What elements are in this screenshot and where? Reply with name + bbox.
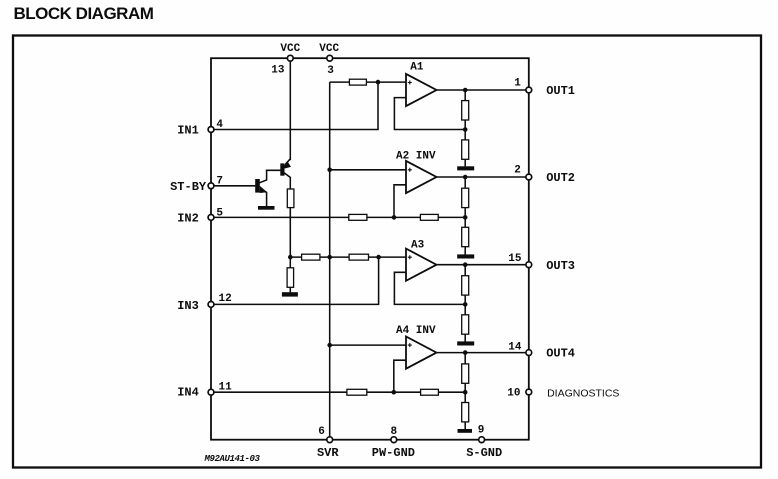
pin 5 IN2 bbox=[208, 215, 214, 221]
svg-text:6: 6 bbox=[318, 426, 325, 438]
transistor Q1 (standby NPN) bbox=[255, 179, 267, 193]
svg-text:VCC: VCC bbox=[280, 43, 300, 55]
resistor A3 divider lower bbox=[462, 315, 469, 334]
ground Q1 emitter bbox=[258, 206, 275, 210]
svg-text:12: 12 bbox=[219, 293, 232, 305]
junction node OUT3 bbox=[463, 262, 468, 267]
wire IN3 row bbox=[211, 257, 379, 304]
resistor A1 input bbox=[349, 79, 366, 85]
ground A2 divider bbox=[457, 254, 474, 258]
resistor A2 divider upper bbox=[462, 188, 469, 207]
pin 14 OUT4 bbox=[526, 350, 532, 356]
resistor A4 divider lower bbox=[462, 403, 469, 422]
svg-text:IN4: IN4 bbox=[177, 386, 199, 400]
svg-text:13: 13 bbox=[271, 65, 285, 77]
svg-text:IN3: IN3 bbox=[177, 299, 199, 313]
pin 6 SVR bbox=[327, 437, 333, 443]
svg-text:SVR: SVR bbox=[317, 446, 339, 460]
resistor bias to ground bbox=[287, 268, 294, 288]
junction node bias corner bbox=[288, 255, 293, 260]
wire A2 output divider bbox=[464, 177, 466, 188]
junction node A2 plus input on SVR rail bbox=[327, 168, 332, 173]
pin 11 IN4 bbox=[208, 389, 214, 395]
svg-text:OUT4: OUT4 bbox=[546, 347, 575, 361]
resistor A3 bias right bbox=[349, 254, 368, 260]
wire VCC pin13 rail down to Q2 emitter bbox=[289, 61, 291, 161]
wire bias node down to ground resistor bbox=[289, 257, 291, 268]
svg-text:1: 1 bbox=[514, 78, 521, 90]
wire ST-BY base bbox=[211, 185, 255, 187]
junction node A4 inverting input bbox=[392, 390, 397, 395]
junction node OUT1 bbox=[463, 88, 468, 93]
svg-text:3: 3 bbox=[327, 65, 334, 77]
wire SVR vertical rail bbox=[329, 82, 331, 438]
junction node A4 feedback tap bbox=[463, 390, 468, 395]
svg-text:OUT1: OUT1 bbox=[546, 84, 575, 98]
wire OUT4 bbox=[437, 352, 529, 354]
pin 7 ST-BY bbox=[208, 183, 214, 189]
svg-text:BLOCK DIAGRAM: BLOCK DIAGRAM bbox=[14, 4, 154, 23]
wire Q2 emitter from VCC rail bbox=[286, 159, 291, 164]
junction node OUT2 bbox=[463, 175, 468, 180]
resistor A1 divider upper bbox=[462, 101, 469, 120]
svg-text:A2 INV: A2 INV bbox=[396, 151, 436, 163]
wire A4 feedback bbox=[394, 360, 406, 392]
wire A3 bias row bbox=[320, 256, 349, 258]
junction node A3 feedback tap bbox=[463, 302, 468, 307]
wire Q2 collector down bbox=[284, 173, 290, 190]
resistor IN2 input bbox=[349, 214, 367, 220]
svg-text:5: 5 bbox=[216, 207, 223, 219]
resistor A3 divider upper bbox=[462, 276, 469, 295]
svg-text:9: 9 bbox=[478, 425, 485, 437]
wire Q1 emitter down to ground bbox=[265, 191, 267, 206]
resistor A2 feedback input bbox=[420, 214, 438, 220]
transistor Q2 (standby PNP) bbox=[280, 161, 291, 176]
svg-text:11: 11 bbox=[219, 382, 233, 394]
wire A4 noninverting input from SVR rail bbox=[330, 344, 406, 346]
svg-text:IN1: IN1 bbox=[177, 124, 199, 138]
op-amp A1 bbox=[406, 62, 437, 106]
junction node bias-SVR bbox=[327, 255, 332, 260]
pin 1 OUT1 bbox=[526, 87, 532, 93]
resistor IN4 input bbox=[347, 389, 367, 395]
pin 13 VCC bbox=[287, 55, 293, 61]
op-amp A4 bbox=[396, 325, 437, 369]
pin 3 VCC bbox=[327, 55, 333, 61]
wire Q1 collector to Q2 base bbox=[259, 170, 280, 183]
ground A1 divider bbox=[457, 166, 474, 170]
svg-text:VCC: VCC bbox=[319, 43, 339, 55]
svg-text:PW-GND: PW-GND bbox=[372, 446, 415, 460]
junction node A2 feedback tap bbox=[463, 215, 468, 220]
wire OUT1 bbox=[437, 89, 529, 91]
wire A2 noninverting input from SVR rail bbox=[330, 169, 406, 171]
pin 10 DIAGNOSTICS bbox=[526, 389, 532, 395]
svg-text:2: 2 bbox=[514, 165, 521, 177]
wire IN1 row bbox=[211, 82, 378, 129]
svg-text:S-GND: S-GND bbox=[466, 446, 502, 460]
svg-text:A3: A3 bbox=[411, 240, 425, 252]
svg-text:7: 7 bbox=[216, 175, 223, 187]
ground A4 divider (S-GND) bbox=[458, 429, 473, 433]
wire A3 output divider bbox=[464, 265, 466, 276]
svg-text:A1: A1 bbox=[410, 62, 424, 74]
pin 12 IN3 bbox=[208, 302, 214, 308]
wire A1 feedback bbox=[394, 98, 465, 130]
pin 4 IN1 bbox=[208, 127, 214, 133]
resistor A4 divider upper bbox=[462, 364, 469, 383]
pin 2 OUT2 bbox=[526, 174, 532, 180]
resistor A3 bias left bbox=[302, 254, 320, 260]
resistor Q2 collector bbox=[287, 189, 294, 208]
op-amp A3 bbox=[406, 240, 437, 281]
svg-text:M92AU141-03: M92AU141-03 bbox=[204, 454, 261, 464]
resistor A2 divider lower bbox=[462, 227, 469, 246]
ground A3 divider bbox=[457, 341, 474, 345]
wire Q2 collector resistor to bias node bbox=[290, 207, 301, 257]
svg-text:14: 14 bbox=[508, 342, 522, 354]
junction node A1 input bbox=[376, 80, 381, 85]
svg-text:15: 15 bbox=[508, 253, 522, 265]
pin 8 PW-GND bbox=[391, 437, 397, 443]
svg-text:DIAGNOSTICS: DIAGNOSTICS bbox=[547, 387, 619, 399]
junction node OUT4 bbox=[463, 350, 468, 355]
wire A3 feedback bbox=[394, 272, 465, 304]
junction node A1 feedback tap bbox=[463, 127, 468, 132]
resistor A1 divider lower bbox=[462, 140, 469, 159]
pin 15 OUT3 bbox=[526, 262, 532, 268]
svg-text:ST-BY: ST-BY bbox=[170, 180, 207, 194]
junction node A3 input bbox=[376, 255, 381, 260]
junction node A4 plus input on SVR rail bbox=[327, 343, 332, 348]
wire IN2 row bbox=[211, 216, 349, 218]
svg-text:OUT3: OUT3 bbox=[546, 259, 575, 273]
wire A4 output divider bbox=[464, 353, 466, 364]
svg-text:A4 INV: A4 INV bbox=[396, 325, 436, 337]
svg-text:OUT2: OUT2 bbox=[546, 171, 575, 185]
wire A1 bias row bbox=[330, 81, 350, 83]
IC block boundary bbox=[211, 58, 529, 440]
svg-text:IN2: IN2 bbox=[177, 212, 199, 226]
svg-text:8: 8 bbox=[390, 426, 397, 438]
ground bias resistor bbox=[282, 292, 298, 296]
wire A2 feedback bbox=[394, 185, 406, 218]
wire OUT2 bbox=[437, 176, 529, 178]
junction node A2 inverting input bbox=[392, 215, 397, 220]
resistor A4 feedback input bbox=[421, 389, 439, 395]
wire OUT3 bbox=[437, 264, 529, 266]
wire IN4 row bbox=[211, 391, 347, 393]
op-amp A2 bbox=[396, 151, 437, 194]
wire A1 output divider bbox=[464, 90, 466, 101]
svg-text:10: 10 bbox=[507, 387, 520, 399]
pin 9 S-GND bbox=[479, 437, 485, 443]
svg-text:4: 4 bbox=[216, 119, 223, 131]
